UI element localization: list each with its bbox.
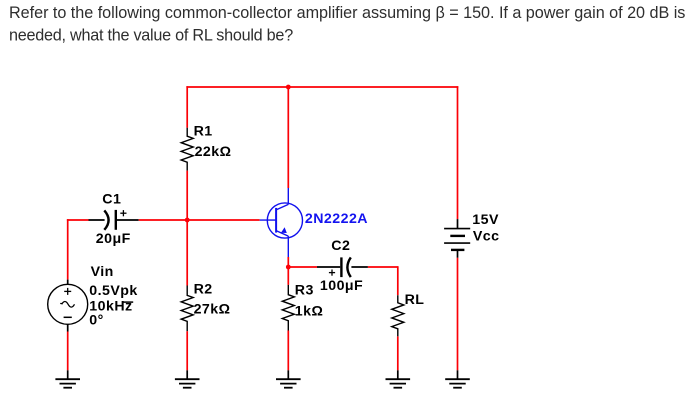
wire C2 to RL [368,266,398,268]
svg-text:15V: 15V [472,212,499,228]
wire Vcc bottom lead [457,258,459,371]
svg-text:needed, what the value of RL s: needed, what the value of RL should be? [9,26,293,44]
svg-text:0.5Vpk: 0.5Vpk [89,283,137,299]
C1 polarity plus [120,210,126,216]
wire Vin bottom lead [67,332,69,371]
wire R1 bottom lead [186,171,188,220]
wire Vcc top lead [457,86,459,219]
ground G3 [276,370,301,387]
svg-text:22kΩ: 22kΩ [195,144,232,160]
svg-text:1kΩ: 1kΩ [295,303,324,319]
wire R2 bottom lead [186,331,188,370]
battery V2 Vcc [444,219,470,258]
wire Vin vertical top [67,219,69,279]
svg-text:Vin: Vin [91,264,114,280]
node emitter junction dot [286,265,291,270]
svg-text:27kΩ: 27kΩ [194,301,231,317]
wire R3 bottom lead [287,331,289,371]
resistor R3 [282,285,294,331]
wire collector [287,87,289,188]
svg-text:Refer to the following common-: Refer to the following common-collector … [9,4,685,22]
svg-text:R3: R3 [295,283,314,299]
wire emitter [287,257,289,267]
svg-text:Vcc: Vcc [473,229,500,245]
ground G4 [386,370,411,387]
svg-text:0°: 0° [89,313,103,329]
source Vin [48,280,88,332]
svg-text:R2: R2 [194,281,213,297]
ground G2 [175,370,200,387]
transistor Q1 2N2222A [260,188,303,257]
capacitor C2 [317,257,368,277]
wire R3 top lead [287,267,289,285]
node collector junction dot [286,85,291,90]
resistor R2 [181,286,193,332]
wire C2 left [288,266,317,268]
resistor RL [392,295,404,336]
svg-text:R1: R1 [194,123,213,139]
wire top rail [186,86,458,88]
svg-text:2N2222A: 2N2222A [305,211,368,227]
wire RL top lead [397,266,399,295]
capacitor C1 [89,210,139,230]
svg-text:C1: C1 [102,191,121,207]
C2 polarity plus [329,270,335,276]
ground G5 [445,370,470,387]
node base-divider junction dot [185,218,190,223]
svg-text:20μF: 20μF [96,231,131,247]
svg-text:100μF: 100μF [320,278,363,294]
wire R1 top lead [186,86,188,128]
resistor R1 [181,128,193,171]
wire R2 top lead [186,220,188,286]
svg-text:C2: C2 [331,238,350,254]
wire base rail [139,219,260,221]
wire C1 left [67,219,89,221]
svg-text:RL: RL [405,292,425,308]
ground G1 [55,370,80,387]
wire RL bottom lead [397,336,399,370]
